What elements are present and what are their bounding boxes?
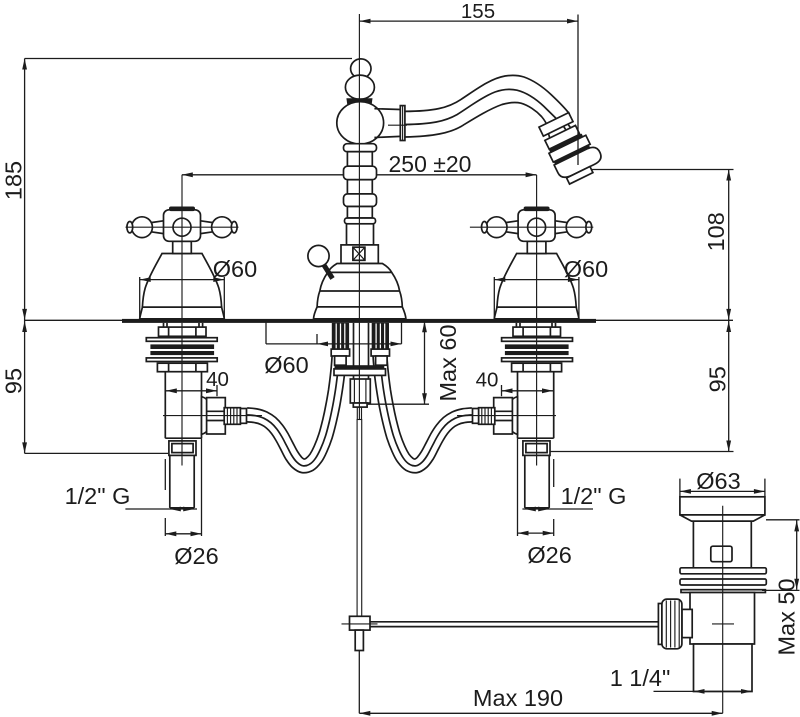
deck extension line (thin) <box>25 319 733 321</box>
left valve tail tube <box>170 455 194 508</box>
aerator assembly (tilted) <box>536 108 606 187</box>
right handle top cap (dark) <box>524 207 550 212</box>
right handle left ball <box>486 217 507 238</box>
right hose middle line <box>380 350 473 466</box>
right handle right arm <box>555 221 568 234</box>
dimension Ø63 <box>680 468 765 497</box>
left outlet centerline <box>163 415 262 417</box>
left shank centerline <box>181 323 183 466</box>
mounting bracket plate (dark) <box>335 365 385 368</box>
right handle stem <box>527 241 546 253</box>
spout hub centerline tick <box>388 124 407 126</box>
right valve thread box 1/2G <box>523 441 550 456</box>
spout tube lower curve <box>405 103 549 137</box>
clamp centerline <box>342 623 378 625</box>
svg-text:1/2" G: 1/2" G <box>65 483 131 509</box>
left valve top nut <box>159 327 207 336</box>
dimension 155 (spout reach, top) <box>360 0 579 24</box>
svg-text:Max 60: Max 60 <box>435 324 461 401</box>
right hose wall inner <box>373 350 473 472</box>
right handle centerline <box>536 175 538 319</box>
left valve dark band 2 <box>150 351 214 355</box>
mounting bracket skirt <box>334 369 386 376</box>
right valve body <box>518 372 554 439</box>
right valve tail tube <box>525 455 549 508</box>
svg-text:155: 155 <box>461 0 495 23</box>
svg-text:Ø60: Ø60 <box>213 256 257 282</box>
left valve dark band 1 <box>150 344 214 349</box>
spout column centerline <box>358 14 360 419</box>
dimension Ø60 left handle <box>140 256 258 319</box>
spout hub (cylinder to flange) <box>374 106 405 141</box>
spout column straight section <box>347 224 374 245</box>
spout tube middle curve <box>405 89 580 168</box>
rod clamp stub <box>355 630 363 650</box>
right handle cross centerline <box>470 226 593 228</box>
right hose (mask) <box>380 350 473 466</box>
155/108 extension line over aerator <box>577 15 579 166</box>
left hose (mask) <box>247 350 340 466</box>
right valve dark band 2 <box>505 351 569 355</box>
right handle bell base <box>494 254 579 319</box>
svg-text:Ø60: Ø60 <box>264 352 308 378</box>
right handle right ball <box>566 217 587 238</box>
right handle left arm <box>506 221 518 234</box>
right hose wall outer <box>387 350 472 460</box>
dimension 1/2 G left <box>65 483 197 511</box>
left handle right ball <box>212 217 233 238</box>
right valve outlet dome <box>506 397 518 435</box>
left handle left arm <box>151 221 164 234</box>
left valve thread box 1/2G <box>169 441 196 456</box>
spout column ring 2 <box>344 166 377 180</box>
spout column neck 3 <box>347 207 372 219</box>
left handle right end cap <box>231 222 237 233</box>
right handle left end cap <box>482 222 488 233</box>
spout tube upper curve <box>405 75 570 114</box>
left valve threaded neck at deck <box>164 323 203 327</box>
left handle bell base <box>140 254 225 319</box>
pop-up lever stem <box>322 262 333 279</box>
right valve washer 2 <box>502 358 573 362</box>
drain washer plate 2 <box>680 579 766 585</box>
svg-text:Ø63: Ø63 <box>696 468 740 494</box>
dimension Ø26 left <box>165 438 218 569</box>
spout body ball <box>337 102 384 144</box>
dimension 95 (right, deck to shank end) <box>550 321 734 452</box>
svg-text:Max 50: Max 50 <box>774 578 800 655</box>
rod clamp block <box>350 616 371 630</box>
spout column neck 2 <box>347 180 372 194</box>
right handle hub circle <box>528 218 546 236</box>
right shank centerline <box>536 323 538 466</box>
spout shank below deck <box>354 323 369 379</box>
drain overflow hole <box>711 546 732 562</box>
dimension Ø60 right handle <box>494 256 608 319</box>
svg-text:250 ±20: 250 ±20 <box>389 151 472 177</box>
horizontal pop-up rod <box>370 622 662 627</box>
left handle stem <box>173 241 192 253</box>
drain knurled wheel <box>658 599 682 649</box>
spout column neck 1 <box>347 152 372 167</box>
left handle centerline <box>181 175 183 319</box>
dimension Max 190 <box>359 685 722 716</box>
left handle cross centerline <box>126 226 239 228</box>
svg-text:1/2" G: 1/2" G <box>561 483 627 509</box>
spout finial ball top <box>351 59 371 78</box>
right valve top nut <box>513 327 561 336</box>
svg-text:108: 108 <box>703 212 729 251</box>
dimension Max 60 <box>368 321 461 404</box>
spout collar (dark) <box>346 98 372 105</box>
drain base plate <box>681 590 765 593</box>
rod extension line (to Max 190) <box>358 651 360 714</box>
svg-text:40: 40 <box>206 368 229 391</box>
drain top flange <box>680 497 765 521</box>
spout bell base <box>314 264 406 319</box>
pop-up rod (upper part) <box>357 407 361 616</box>
dimension Ø60 center <box>264 322 401 379</box>
spout column flare <box>345 218 376 224</box>
right valve dark band 1 <box>505 344 569 349</box>
dimension Max 50 <box>762 520 800 656</box>
left handle right arm <box>201 221 214 234</box>
left valve washer 2 <box>146 358 217 362</box>
spout escutcheon block <box>341 245 378 264</box>
drain tailpiece <box>694 644 753 692</box>
left hose wall outer <box>246 350 346 472</box>
left valve hose nipple (ribbed) <box>224 408 246 425</box>
dimension 1 1/4" <box>610 665 752 694</box>
spout shank nut <box>350 379 370 407</box>
right valve hose nipple (ribbed) <box>473 408 495 425</box>
right handle right end cap <box>586 222 592 233</box>
drain barrel <box>690 593 755 645</box>
dimension Ø26 right <box>518 438 572 568</box>
dimension 1/2 G right <box>522 483 626 511</box>
svg-text:Max 190: Max 190 <box>473 685 563 711</box>
left handle hub <box>164 210 201 242</box>
left hose wall inner <box>247 350 332 460</box>
left valve washer 1 <box>146 338 217 342</box>
left valve body <box>165 372 201 439</box>
left handle top cap (dark) <box>169 207 195 212</box>
left valve outlet hex nut <box>207 398 226 434</box>
drain centerline <box>722 506 724 714</box>
left handle left end cap <box>127 222 133 233</box>
deck / countertop (thick bar) <box>122 319 596 323</box>
left handle left ball <box>132 217 153 238</box>
left hose middle line <box>247 350 340 466</box>
left handle hub circle <box>173 218 191 236</box>
right outlet centerline <box>457 415 556 417</box>
drain hub to wheel <box>682 609 692 637</box>
svg-text:Ø26: Ø26 <box>174 543 218 569</box>
svg-text:40: 40 <box>476 369 499 392</box>
dimension 250 ±20 (between handle centers) <box>182 151 537 177</box>
dimension 185 (left, spout top to deck) <box>1 59 353 454</box>
spout finial ball 2 <box>345 75 374 99</box>
right valve washer 1 <box>502 338 573 342</box>
cross symbol square <box>353 247 365 260</box>
left valve lower nut <box>157 363 207 372</box>
drain barrel centerline tick <box>712 623 734 625</box>
svg-text:95: 95 <box>1 368 27 394</box>
spout column ring 3 <box>344 194 377 207</box>
pop-up rod bar <box>357 420 362 617</box>
right valve threaded neck at deck <box>516 323 555 327</box>
left mounting stud (threaded) <box>331 323 349 365</box>
dimension 95 (left, deck to shank end) <box>1 321 169 453</box>
pop-up lever ball <box>308 245 329 266</box>
drain neck <box>693 521 751 568</box>
right handle hub <box>518 210 555 242</box>
dimension 108 (aerator outlet to deck, right) <box>581 170 734 452</box>
spout column ring 1 <box>344 144 377 152</box>
left valve outlet dome <box>202 397 214 435</box>
svg-text:95: 95 <box>705 366 731 392</box>
svg-text:Ø60: Ø60 <box>564 256 608 282</box>
right valve lower nut <box>512 363 562 372</box>
right mounting stud (threaded) <box>371 323 389 365</box>
dimension 40 right <box>476 369 553 397</box>
svg-text:185: 185 <box>1 161 27 200</box>
drain washer plate 1 <box>680 568 766 574</box>
svg-text:1 1/4": 1 1/4" <box>610 665 671 691</box>
right valve outlet hex nut <box>494 398 513 434</box>
svg-text:Ø26: Ø26 <box>527 542 571 568</box>
dimension 40 left <box>166 368 229 396</box>
